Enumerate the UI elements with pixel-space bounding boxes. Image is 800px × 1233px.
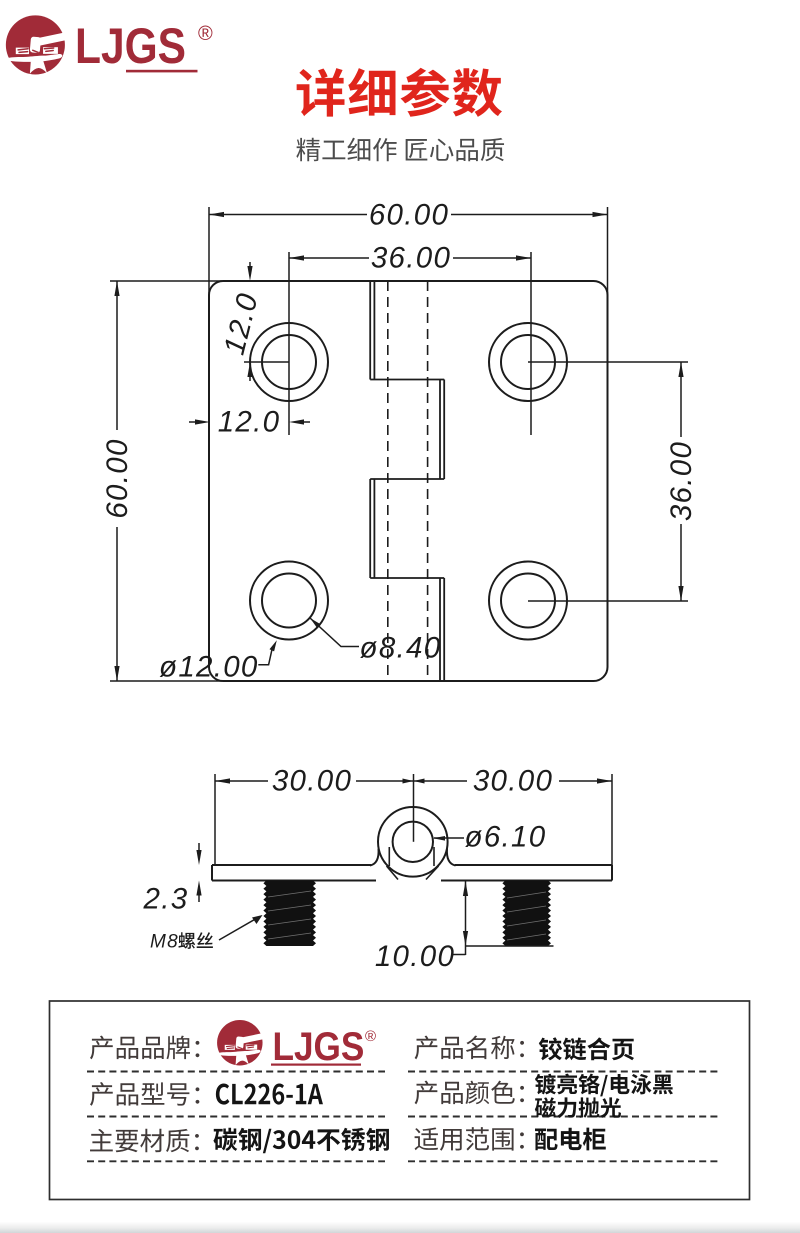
mounting hole 1 [250,323,328,401]
leader ø6.10 (pin hole dia) [433,821,546,854]
value 镀亮铬/电泳黑 [535,1074,673,1097]
label 产品名称 [415,1036,524,1060]
pin hole circle ø6.10 [393,822,433,862]
footer gray band [0,1222,800,1233]
value 磁力抛光 [535,1097,621,1118]
svg-text:12.0: 12.0 [218,406,281,439]
svg-text:10.00: 10.00 [375,940,455,973]
hinge plate outline (top view 60x60) [209,281,608,681]
label 产品品牌 [90,1036,199,1060]
label 产品颜色 [415,1081,524,1105]
title 详细参数 [297,68,502,117]
hinge bar (side view) [212,865,612,881]
dimension 30.00 left [215,765,414,866]
dimension 12.0 horizontal (hole offset from edge) [189,406,310,439]
value CL226-1A [216,1083,323,1104]
label M8螺丝 with leader [150,915,263,953]
svg-text:ø6.10: ø6.10 [465,821,547,854]
spec table border [50,1001,750,1200]
label 主要材质 [90,1129,199,1152]
threaded stud M8 right [502,881,551,947]
table dashed separators [87,1072,718,1162]
svg-text:30.00: 30.00 [473,765,553,798]
value 铰链合页 [539,1037,634,1060]
dimension 36.00 top [289,242,531,436]
svg-text:12.0: 12.0 [218,289,265,358]
dimension 60.00 top [209,199,608,297]
hinge pin hidden lines (dashed) [388,281,428,681]
subtitle 精工细作 匠心品质 [296,138,504,162]
dimension 60.00 left [101,281,222,681]
brand logo small [217,1020,376,1068]
label 产品型号 [90,1082,199,1106]
svg-text:M8: M8 [150,932,179,953]
value 配电柜 [535,1128,606,1151]
svg-text:36.00: 36.00 [665,441,698,521]
mounting hole 2 [489,323,567,401]
dimension 12.0 vertical (hole offset from top) [218,262,289,381]
logo LJGS icon [6,15,67,74]
svg-text:2.3: 2.3 [143,883,189,916]
dimension 30.00 right [414,765,613,866]
dimension 10.00 (stud length) [375,881,554,974]
svg-text:60.00: 60.00 [101,438,134,518]
dimension 36.00 right [528,362,698,601]
logo LJGS text [75,18,213,74]
svg-text:36.00: 36.00 [371,242,451,275]
svg-text:30.00: 30.00 [272,765,352,798]
knuckle barrel outer circle [378,807,448,877]
mounting hole 4 [489,562,567,640]
leader ø8.40 (inner hole dia) [310,618,441,665]
svg-text:ø8.40: ø8.40 [360,632,442,665]
mounting hole 3 [250,562,328,640]
svg-text:60.00: 60.00 [369,199,449,232]
curled sheet edges inside knuckle [387,847,439,880]
value 碳钢/304不锈钢 [213,1128,389,1154]
svg-text:ø12.00: ø12.00 [159,651,259,684]
leaf fillets into knuckle [370,849,456,866]
threaded stud M8 left [263,881,316,947]
knuckle cut edge (stepped line) [370,281,444,681]
leader ø12.00 (outer hole dia) [159,640,277,683]
dimension 2.3 (bar thickness) [143,843,202,916]
svg-text:LJGS: LJGS [273,1024,365,1069]
svg-text:®: ® [365,1028,376,1045]
label 适用范围 [415,1127,524,1151]
